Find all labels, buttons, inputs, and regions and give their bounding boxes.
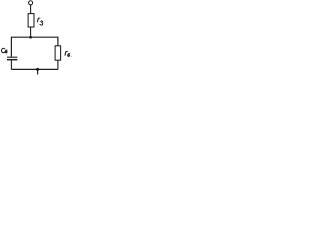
resistor rb body (55, 46, 61, 60)
capacitor Cb bottom plate (7, 59, 17, 61)
wire resistor r3 to mid bus (30, 27, 32, 37)
junction dot on mid bus (29, 36, 32, 39)
capacitor Cb top plate (7, 56, 17, 58)
ground stub (37, 69, 39, 74)
resistor r3 body (28, 14, 34, 27)
wire capacitor to bottom bus (10, 60, 12, 69)
label Cb (1, 48, 7, 53)
junction dot on bottom bus (36, 68, 39, 71)
bottom bus (11, 68, 58, 70)
label r3 (37, 18, 42, 25)
background (0, 0, 77, 78)
terminal circle (input) (29, 1, 33, 5)
label rb (65, 51, 72, 56)
wire resistor rb to bottom bus (57, 60, 59, 69)
mid bus with corner legs (11, 37, 58, 57)
wire terminal to resistor r3 (30, 5, 32, 14)
